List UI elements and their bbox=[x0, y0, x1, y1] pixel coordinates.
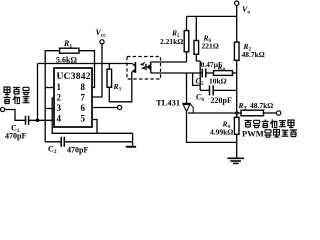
svg-text:7: 7 bbox=[81, 93, 86, 103]
wire pin5 stub down to ground line bbox=[92, 120, 97, 134]
svg-text:2.21kΩ: 2.21kΩ bbox=[160, 37, 183, 46]
node dot on pin4 line bbox=[36, 119, 40, 123]
svg-text:4.99kΩ: 4.99kΩ bbox=[210, 128, 233, 137]
wire LED cathode rail to C5 branch bbox=[151, 72, 203, 74]
capacitor C1 plates bbox=[26, 116, 29, 125]
wire C5 to R8 bbox=[206, 72, 214, 74]
phototransistor bbox=[132, 62, 136, 73]
svg-text:48.7kΩ: 48.7kΩ bbox=[250, 101, 273, 110]
wire R2 bottom down to node bbox=[236, 60, 238, 117]
PWM terminal circle bbox=[276, 111, 280, 115]
wire ref line to feedback node bbox=[188, 112, 237, 114]
wire vertical from dot up to collector bus bbox=[37, 64, 39, 121]
svg-text:470pF: 470pF bbox=[5, 132, 26, 141]
svg-text:R3: R3 bbox=[113, 82, 122, 93]
resistor R2 body bbox=[234, 42, 239, 60]
output terminal circle bbox=[118, 105, 122, 109]
svg-text:8: 8 bbox=[81, 82, 86, 92]
capacitor C2 wire left bbox=[45, 141, 61, 143]
svg-text:PWM: PWM bbox=[242, 129, 264, 139]
TL431 anode wire down and right to ground bbox=[187, 112, 237, 143]
TL431 ref tick bbox=[190, 104, 193, 113]
capacitor C5 plates bbox=[202, 69, 206, 78]
svg-text:2: 2 bbox=[57, 93, 62, 103]
capacitor C6 branch wire bbox=[200, 89, 237, 91]
Vo terminal circle bbox=[235, 1, 239, 5]
svg-text:48.7kΩ: 48.7kΩ bbox=[242, 50, 265, 59]
input terminal circle bbox=[1, 107, 5, 111]
wire top bus from Vo bbox=[187, 15, 237, 17]
Vcc terminal circle bbox=[100, 40, 104, 44]
wire Vcc down to pin7 bbox=[92, 44, 102, 97]
TL431 symbol bbox=[182, 103, 190, 105]
svg-text:10kΩ: 10kΩ bbox=[209, 77, 227, 86]
svg-text:C6: C6 bbox=[196, 93, 204, 104]
svg-text:470pF: 470pF bbox=[67, 146, 88, 155]
svg-text:TL431: TL431 bbox=[156, 98, 180, 108]
ground (left) bbox=[132, 133, 134, 146]
wire R1 left lead down to pin4 line bbox=[45, 51, 59, 142]
wire Vo down bbox=[236, 5, 238, 42]
wire node to Rt bbox=[237, 112, 241, 114]
resistor R6 body and leads bbox=[196, 16, 200, 61]
wire opto cathode drop to left rail bbox=[193, 73, 201, 85]
opto LED bbox=[146, 62, 151, 73]
wire pin2 stub down under IC to ground bbox=[52, 98, 132, 133]
node dot feedback bbox=[235, 111, 239, 115]
capacitor C2 plates bbox=[61, 137, 64, 147]
resistor R5 body and leads bbox=[186, 16, 188, 62]
wire C2 right to ground bbox=[64, 141, 132, 143]
svg-text:221Ω: 221Ω bbox=[202, 42, 219, 51]
light arrows bbox=[141, 62, 147, 68]
ground (right) bbox=[227, 158, 244, 163]
capacitor C6 plates bbox=[210, 85, 214, 95]
wire pin3 stub bbox=[45, 108, 54, 110]
resistor R1 body bbox=[60, 48, 79, 53]
wire C1 to pin4 of UC3842 bbox=[29, 119, 54, 121]
wire pin1 stub bbox=[45, 87, 54, 89]
wire LED anode rail to R5 bbox=[151, 61, 187, 63]
resistor R8 body bbox=[214, 71, 233, 76]
resistor Rt body bbox=[241, 110, 264, 116]
svg-text:Vcc: Vcc bbox=[96, 28, 107, 39]
wire R3 bottom to opto emitter bbox=[109, 72, 132, 102]
wire Rt to PWM terminal bbox=[264, 112, 277, 114]
wire R8 to right rail bbox=[233, 72, 237, 74]
svg-text:C2: C2 bbox=[48, 145, 57, 156]
svg-text:3: 3 bbox=[57, 103, 62, 113]
emitter arrow bbox=[132, 70, 135, 73]
svg-text:220pF: 220pF bbox=[211, 96, 232, 105]
resistor R3 top lead bbox=[108, 64, 110, 70]
svg-text:1: 1 bbox=[57, 82, 62, 92]
wire R1 right lead down to pin8 bbox=[79, 51, 95, 88]
svg-text:6: 6 bbox=[81, 103, 86, 113]
resistor R4 body bbox=[234, 117, 239, 134]
label 电源取样信号 (power sampling signal), two pseudo-glyph lines bbox=[4, 87, 30, 104]
op-amp U1 UC3842 box bbox=[54, 68, 92, 127]
left rail bbox=[199, 61, 201, 90]
optocoupler dashed box bbox=[127, 57, 161, 80]
resistor R3 body bbox=[107, 69, 112, 87]
svg-text:UC3842: UC3842 bbox=[57, 72, 91, 82]
label 连接至单片机 PWM输出端口 (connect to MCU PWM output port) bbox=[242, 120, 297, 139]
svg-text:Vo: Vo bbox=[242, 5, 250, 16]
wire collector bus bbox=[38, 63, 133, 65]
wire from input terminal bbox=[5, 110, 26, 121]
svg-text:4: 4 bbox=[57, 114, 62, 124]
svg-text:5: 5 bbox=[81, 114, 86, 124]
wire pin6 to output terminal bbox=[92, 107, 118, 109]
TL431 cathode wire bbox=[186, 73, 188, 104]
wire R4 bottom to ground bbox=[236, 134, 238, 158]
